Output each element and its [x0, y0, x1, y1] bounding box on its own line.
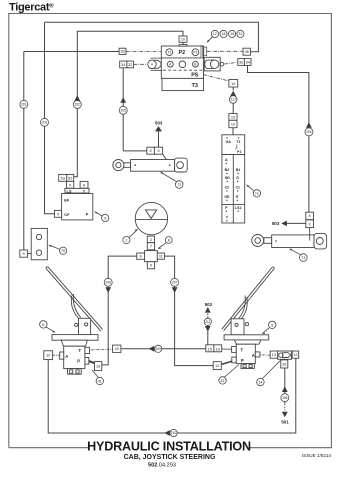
svg-text:36: 36 [245, 50, 249, 54]
coupler [278, 351, 292, 359]
dash-dot pedal box10L to port A [53, 354, 60, 356]
label circle 72 [160, 172, 183, 189]
dash-dot box32L to left coupler [134, 63, 147, 65]
port A [167, 61, 173, 67]
svg-text:CAB, JOYSTICK STEERING: CAB, JOYSTICK STEERING [124, 454, 216, 461]
rod eye [252, 235, 264, 247]
hose 201 circle [20, 100, 28, 108]
dash-dot box33 to port T2 [126, 51, 164, 53]
svg-text:B1: B1 [236, 168, 241, 172]
svg-text:2: 2 [150, 238, 152, 242]
svg-text:201: 201 [21, 103, 27, 107]
box 10 lower [229, 120, 237, 127]
port X box under 52 [66, 181, 73, 188]
port X box on wire 201 [20, 250, 28, 257]
box 12 left [213, 362, 221, 370]
wire accumulator right to pedal box12 [164, 256, 213, 366]
svg-text:34: 34 [246, 60, 250, 64]
valve block body [161, 46, 203, 78]
svg-text:18: 18 [222, 32, 226, 36]
svg-text:206: 206 [282, 396, 288, 400]
svg-text:53: 53 [61, 176, 65, 180]
rod [124, 163, 131, 168]
barrel [131, 160, 175, 172]
label circle 41 right [219, 365, 239, 385]
box 7 [147, 243, 154, 250]
hose 205 circle [119, 106, 127, 114]
hinge block [231, 319, 244, 335]
port X boxes [306, 212, 314, 219]
valve neck [61, 340, 87, 346]
pedal lever [241, 297, 247, 320]
manifold port labels [224, 140, 241, 220]
label circle 41 left [92, 370, 104, 385]
svg-text:16: 16 [282, 362, 286, 366]
hose 206 arrow down to 501 [282, 412, 288, 418]
svg-text:43: 43 [115, 347, 119, 351]
LS T bar [65, 188, 89, 193]
svg-text:P1: P1 [193, 50, 197, 54]
accumulator item 1 [135, 202, 167, 234]
hose 202 circle [73, 101, 81, 109]
right coupler [204, 57, 220, 71]
svg-text:10: 10 [46, 354, 50, 358]
box 16 [281, 360, 288, 368]
wire 503 to cylinder72 [158, 131, 160, 147]
box 10 [214, 345, 222, 352]
svg-text:12: 12 [293, 353, 297, 357]
box 52 [67, 174, 74, 181]
hose 206 circle [281, 394, 289, 402]
wire 205 box34L to cylinder72 [123, 68, 147, 151]
manifold center block [145, 251, 158, 262]
hose 204 flow arrow [306, 122, 312, 128]
svg-text:72: 72 [177, 183, 181, 187]
hose 207 flow arrow down [172, 287, 178, 293]
pump body [62, 194, 93, 220]
hose 211 arrow down [205, 326, 211, 332]
svg-text:9: 9 [104, 216, 106, 220]
label circle 73 [289, 249, 307, 262]
link right pedal box10 to port T [222, 348, 235, 350]
base plate [224, 335, 269, 340]
cap end [314, 233, 327, 249]
svg-text:CF: CF [64, 212, 70, 217]
svg-text:10: 10 [231, 122, 235, 126]
hose 212 circle on manifold chain [229, 96, 237, 104]
pedal plate [222, 267, 274, 331]
svg-text:205: 205 [121, 109, 127, 113]
label circle 9 [94, 211, 109, 221]
svg-text:41: 41 [98, 379, 102, 383]
port T2 [166, 49, 173, 56]
left coupler [151, 58, 163, 70]
svg-text:T2: T2 [167, 50, 171, 54]
svg-text:T1: T1 [236, 140, 240, 144]
hose 208 flow arrow down [105, 287, 111, 293]
label circle 71 [246, 185, 261, 198]
box 10 above valve [179, 36, 187, 42]
hose 203 circle [41, 118, 49, 126]
box 12 right [292, 351, 299, 358]
svg-text:GD: GD [225, 176, 231, 180]
hose 208 circle [104, 278, 112, 286]
svg-text:52: 52 [68, 176, 72, 180]
svg-text:Tigercat®: Tigercat® [9, 2, 54, 14]
svg-text:502.04.293: 502.04.293 [148, 462, 176, 468]
svg-text:A: A [252, 353, 255, 358]
wire chain to manifold71 [232, 87, 234, 135]
label circle 14 [257, 361, 281, 386]
svg-text:C1: C1 [235, 186, 240, 190]
wire box10 to valve top [182, 42, 184, 46]
svg-text:9: 9 [140, 255, 142, 259]
dash-dot pedal port T to box43 [86, 348, 113, 351]
port B [193, 61, 199, 67]
port T notch [85, 347, 90, 353]
box 10 left [44, 351, 53, 360]
svg-text:503: 503 [272, 221, 280, 226]
port P1 flange [201, 45, 203, 57]
svg-text:X: X [57, 212, 60, 216]
pedal boxes left [44, 345, 121, 371]
valve body [236, 344, 255, 363]
hose 210 flow arrow left [164, 430, 170, 436]
svg-text:X: X [308, 222, 311, 226]
dash-dot right pedal port A to box13 [257, 354, 270, 356]
svg-text:17: 17 [213, 32, 217, 36]
svg-text:15: 15 [208, 348, 212, 352]
box 2 [147, 236, 154, 243]
svg-text:41: 41 [220, 379, 224, 383]
svg-text:71: 71 [255, 192, 259, 196]
svg-text:T: T [79, 348, 82, 353]
port A notch [60, 352, 64, 359]
box 10 under P [95, 362, 102, 371]
rod [264, 238, 272, 244]
hose 204 circle [305, 128, 313, 136]
hinge block [79, 318, 91, 335]
svg-text:P: P [77, 359, 80, 364]
wire 210 bottom return [48, 358, 296, 433]
svg-text:10: 10 [181, 38, 185, 42]
wire 503 to cylinder73 [287, 222, 306, 224]
box 9 bottom [147, 262, 154, 269]
svg-text:X: X [157, 149, 160, 153]
wire 209 box43 to box15 [121, 348, 206, 350]
port X boxes [147, 147, 155, 154]
svg-text:15: 15 [231, 115, 235, 119]
svg-text:9: 9 [150, 264, 152, 268]
svg-text:EF: EF [64, 197, 70, 202]
svg-text:1: 1 [125, 239, 127, 243]
hose 207 circle [171, 278, 179, 286]
box 36 [243, 48, 250, 55]
hose 211 flow arrow up [205, 307, 211, 313]
svg-text:31: 31 [238, 32, 242, 36]
barrel [272, 235, 314, 248]
hose 205 flow arrow [120, 97, 126, 103]
svg-text:212: 212 [231, 98, 237, 102]
svg-text:13: 13 [272, 353, 276, 357]
hose 202 flow arrow [74, 95, 80, 101]
pedal lever [71, 296, 79, 319]
svg-text:PS: PS [191, 73, 199, 79]
box 15 [206, 345, 214, 352]
svg-text:202: 202 [75, 103, 81, 107]
svg-text:32: 32 [128, 63, 132, 67]
svg-text:8: 8 [168, 238, 170, 242]
hose 206 flow arrow up [282, 386, 288, 392]
svg-text:HYDRAULIC INSTALLATION: HYDRAULIC INSTALLATION [87, 439, 251, 453]
svg-text:14: 14 [258, 381, 262, 385]
port A notch [255, 352, 260, 357]
svg-text:X: X [22, 252, 25, 256]
svg-text:19: 19 [230, 32, 234, 36]
valve bottom cap [68, 369, 82, 375]
svg-text:P2: P2 [179, 50, 186, 56]
wire accumulator left to pedal box10 [102, 256, 137, 365]
svg-text:211: 211 [205, 320, 210, 324]
port X box at CF [55, 210, 62, 217]
box 11 right [157, 253, 164, 259]
label circle 8 [158, 237, 173, 249]
svg-text:ISSUE 1/6214: ISSUE 1/6214 [302, 453, 332, 458]
hose 209 flow arrow left [149, 346, 155, 352]
box 53 [59, 174, 67, 181]
thick hose right pedal P to box12 [221, 360, 236, 365]
hose 210 circle [170, 429, 177, 436]
box 15 [229, 113, 237, 120]
item circles 17 18 19 31 [211, 30, 244, 37]
svg-text:X: X [83, 183, 86, 187]
svg-text:6: 6 [42, 323, 44, 327]
wire 502 drop [207, 314, 209, 319]
valve labels [167, 50, 197, 66]
flow arrow 202 [230, 91, 236, 96]
port X box T [80, 181, 88, 188]
box 13 [270, 351, 278, 358]
svg-text:33: 33 [120, 50, 124, 54]
svg-text:502: 502 [205, 302, 213, 307]
svg-text:A: A [65, 354, 68, 359]
wire 501 drop [284, 368, 286, 404]
svg-text:73: 73 [301, 256, 305, 260]
box 32 right [238, 59, 245, 66]
hose 209 circle [155, 345, 162, 352]
box 32 left [127, 61, 134, 68]
svg-text:LS: LS [67, 188, 72, 193]
svg-text:10: 10 [96, 364, 100, 368]
svg-text:34: 34 [121, 63, 125, 67]
valve bottom cap [241, 364, 254, 369]
svg-text:209: 209 [156, 347, 162, 351]
svg-text:32: 32 [239, 60, 243, 64]
svg-text:GA: GA [226, 140, 232, 144]
wire 202 pump 52 to box10 [74, 31, 183, 177]
box 34 right [244, 59, 251, 66]
svg-text:T: T [241, 347, 244, 352]
svg-text:B2: B2 [225, 168, 230, 172]
box 33 [119, 48, 126, 54]
manifold block [222, 135, 245, 223]
pedal boxes right [206, 345, 299, 370]
thick hose pedal P to box10R [86, 360, 96, 364]
svg-text:T3: T3 [192, 83, 198, 89]
label circle 5 [262, 321, 276, 334]
box 9 left [137, 253, 145, 259]
label circle 70 [48, 245, 66, 254]
valve neck [234, 340, 261, 344]
svg-text:10: 10 [216, 348, 220, 352]
gauge port circle [179, 61, 186, 68]
svg-text:GE: GE [224, 195, 230, 199]
port T notch [232, 347, 237, 353]
svg-text:208: 208 [106, 281, 112, 285]
svg-text:X: X [308, 214, 311, 218]
dash-dot valve PS to box10 [204, 75, 229, 81]
svg-text:P1: P1 [237, 150, 241, 154]
svg-text:204: 204 [306, 130, 312, 134]
svg-text:7: 7 [150, 245, 152, 249]
box 34 left [120, 61, 127, 68]
T1 to P1 pointer [235, 145, 237, 150]
svg-text:501: 501 [281, 419, 289, 424]
svg-text:10: 10 [231, 82, 235, 86]
port P1 [192, 49, 199, 56]
valve body [64, 346, 85, 368]
valve T3 section [162, 78, 204, 90]
svg-text:11: 11 [159, 255, 163, 259]
svg-text:P: P [86, 211, 89, 216]
port P notch [232, 357, 236, 363]
rod eye [113, 160, 124, 171]
dash-dot right coupler to box32R [224, 62, 238, 64]
wire 201 T2 line [24, 52, 119, 251]
svg-text:5: 5 [271, 323, 273, 327]
base plate [52, 335, 98, 341]
label circle 1 [123, 229, 138, 244]
svg-text:203: 203 [42, 121, 48, 125]
svg-text:207: 207 [172, 281, 178, 285]
svg-text:210: 210 [171, 431, 177, 435]
arrow to items 17-31 [208, 37, 213, 42]
svg-text:C2: C2 [225, 186, 230, 190]
wire 204 box34R to cylinder73 [248, 65, 309, 212]
box 10 on PS line [229, 80, 238, 88]
svg-text:503: 503 [155, 121, 163, 126]
label circle 6 [40, 321, 56, 333]
svg-text:70: 70 [61, 249, 65, 253]
dash-dot port P1 to box36 [207, 50, 243, 52]
hose 211 circle [204, 318, 211, 325]
svg-text:LS1: LS1 [235, 206, 241, 210]
svg-text:P: P [241, 358, 244, 363]
wire 203 CF to P1 line [45, 22, 259, 214]
cap end [175, 158, 188, 172]
box 43 [113, 345, 121, 352]
port P notch [85, 358, 89, 365]
svg-text:12: 12 [215, 364, 219, 368]
pedal plate [46, 267, 103, 331]
